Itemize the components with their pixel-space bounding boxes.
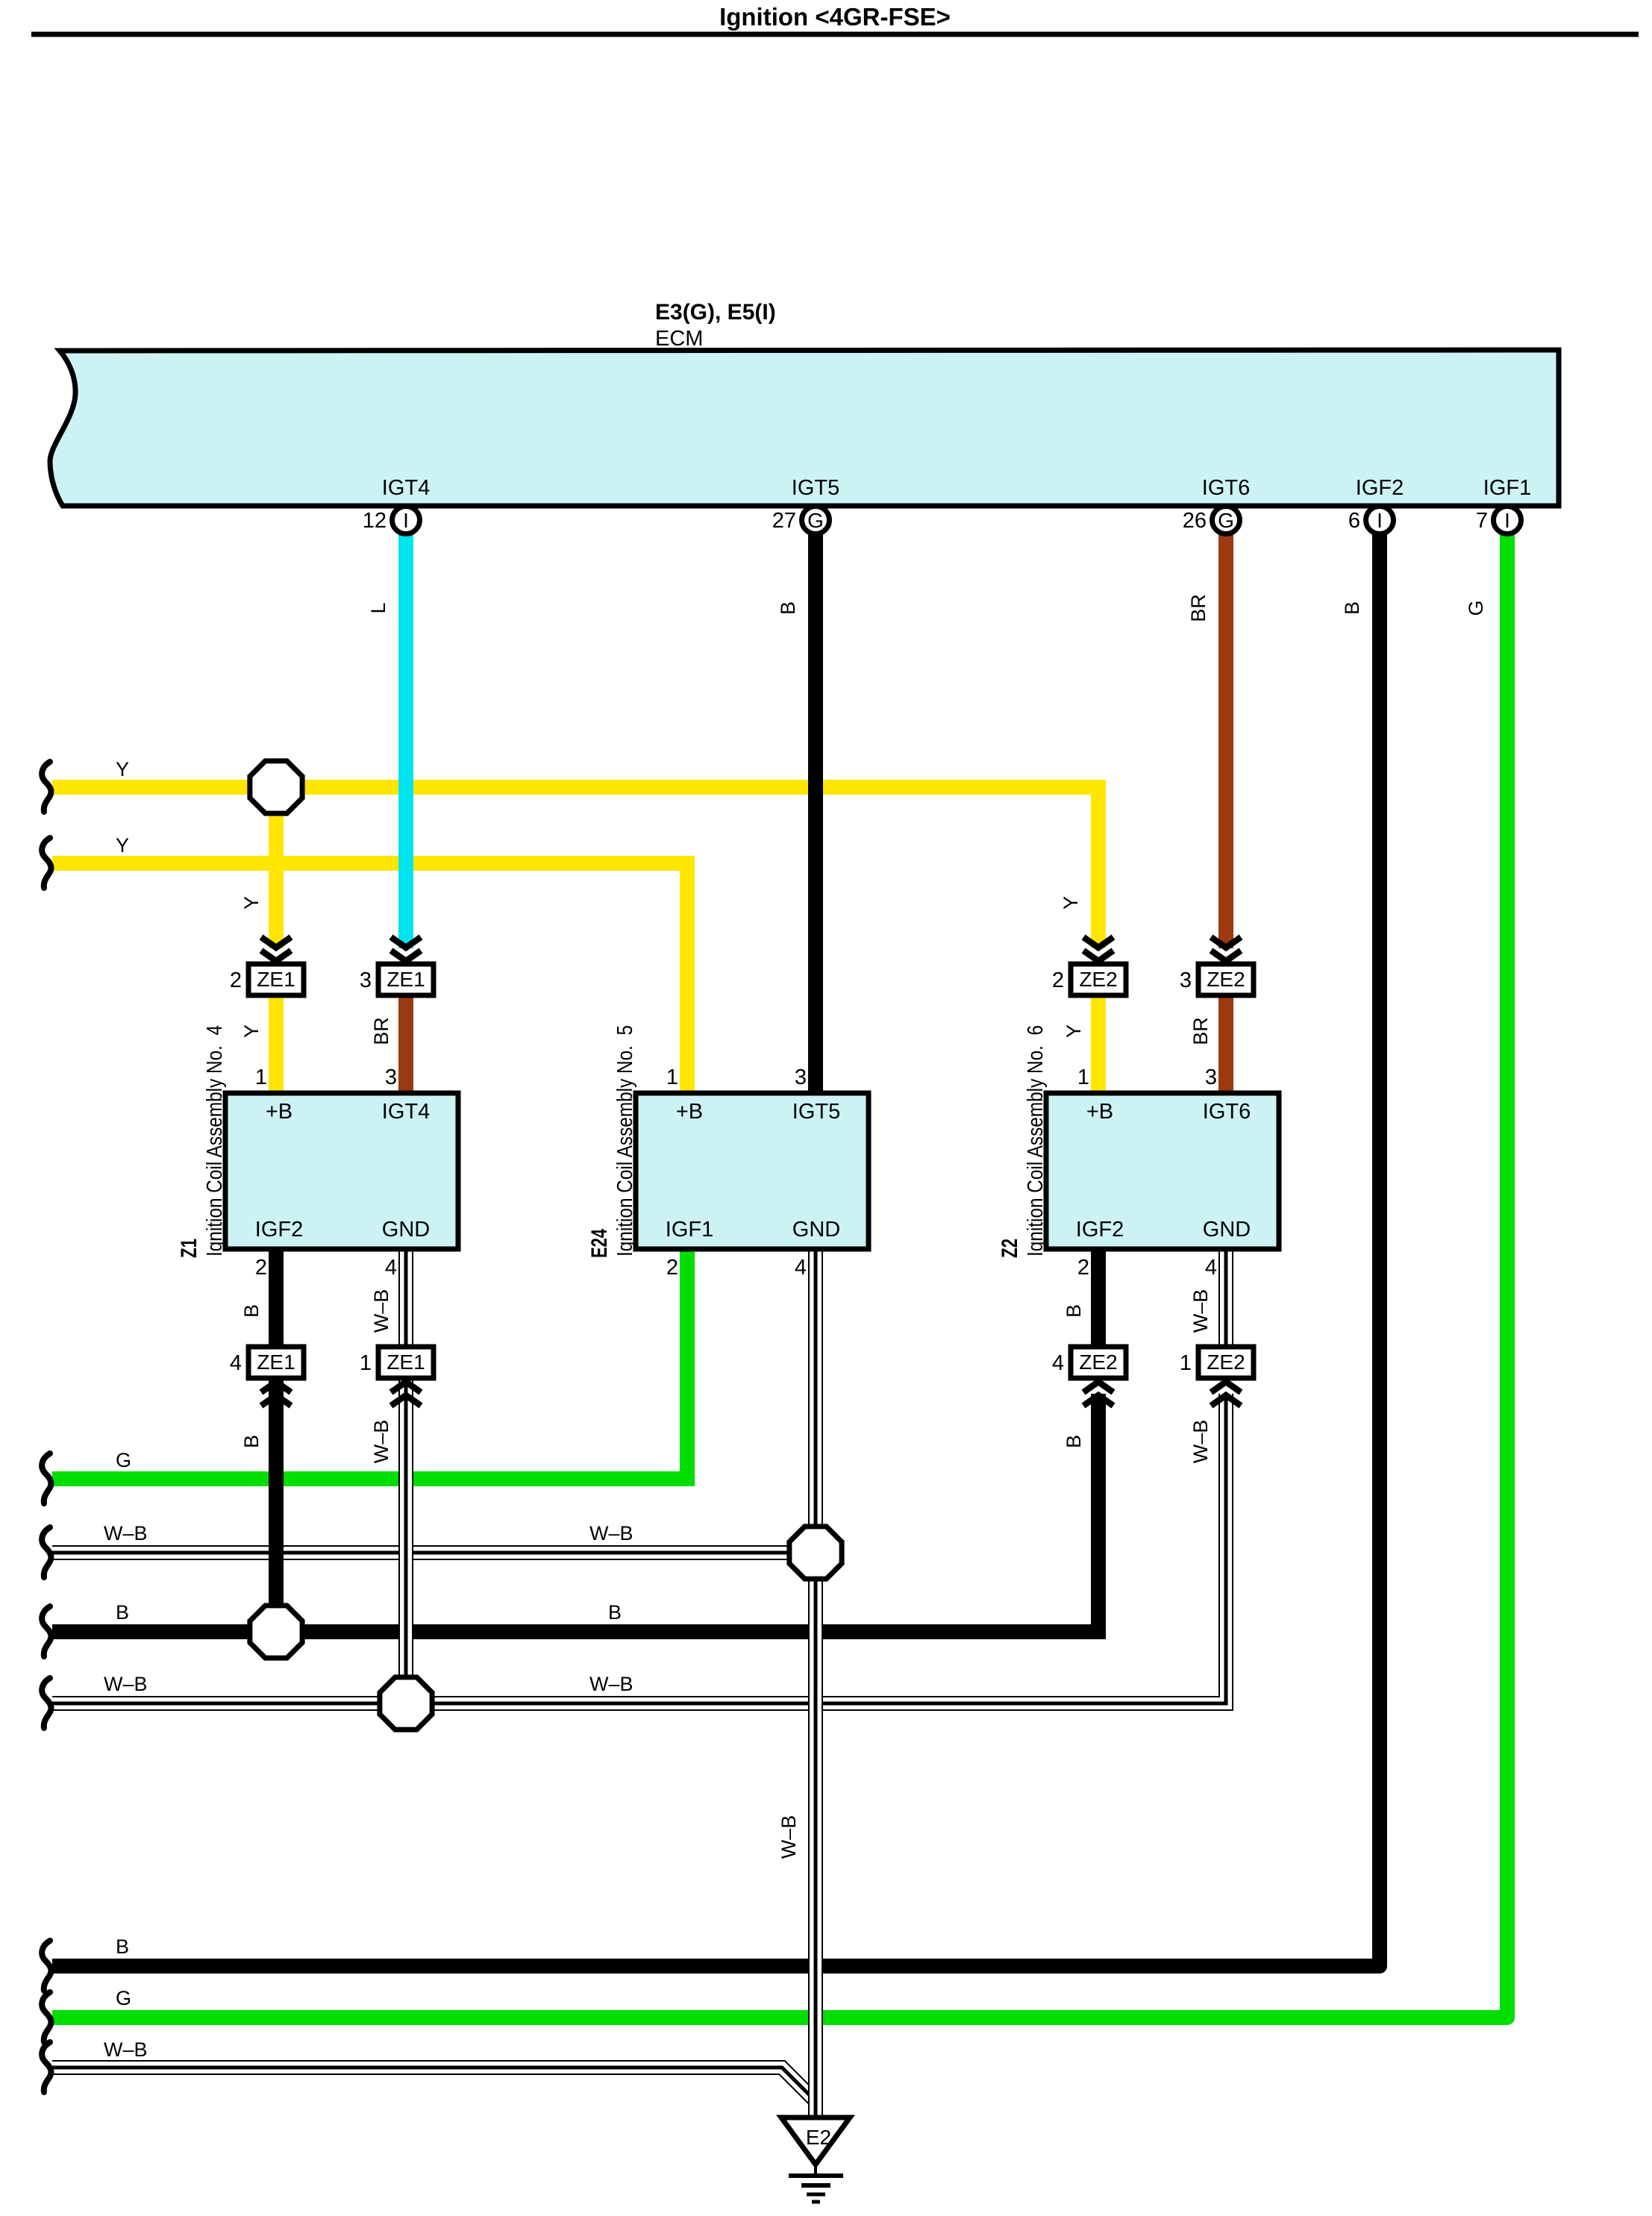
ground E2 bbox=[781, 2118, 850, 2202]
torn-wire mark (W-B bus 2) bbox=[42, 1678, 51, 1728]
svg-text:2: 2 bbox=[666, 1256, 678, 1280]
wire L from ECM IGT4 to ZE1 pin 3 bbox=[398, 534, 413, 948]
junction on B bus bbox=[250, 1606, 302, 1658]
ignition coil E24 bbox=[587, 1025, 869, 1258]
svg-text:Y: Y bbox=[1060, 896, 1082, 910]
connector ZE2 pin 2 bbox=[1052, 937, 1126, 995]
svg-text:B: B bbox=[116, 1601, 129, 1624]
svg-text:ZE2: ZE2 bbox=[1207, 968, 1245, 991]
svg-text:12: 12 bbox=[363, 509, 387, 533]
svg-text:BR: BR bbox=[1187, 594, 1210, 622]
svg-text:ZE1: ZE1 bbox=[387, 968, 425, 991]
svg-text:2: 2 bbox=[1052, 968, 1064, 992]
svg-text:ECM: ECM bbox=[655, 327, 703, 351]
svg-text:B: B bbox=[1063, 1435, 1085, 1448]
torn-wire mark (G bus) bbox=[42, 1453, 51, 1503]
wire BR from ECM IGT6 to ZE2 pin 3 bbox=[1218, 534, 1233, 948]
svg-text:ZE1: ZE1 bbox=[257, 968, 295, 991]
wire B from Z2 IGF2 to ZE2 pin 4 bbox=[1091, 1249, 1106, 1347]
wire B from ZE1 pin 4 to B bus bbox=[269, 1378, 284, 1632]
svg-text:2: 2 bbox=[230, 968, 242, 992]
junction on W-B bus 1 bbox=[789, 1527, 842, 1579]
title rule bbox=[31, 32, 1639, 37]
wire W-B bus 1 bbox=[52, 1545, 816, 1560]
svg-text:Z1: Z1 bbox=[177, 1239, 201, 1258]
svg-text:Ignition Coil Assembly No. 6: Ignition Coil Assembly No. 6 bbox=[1024, 1025, 1048, 1256]
svg-text:ZE2: ZE2 bbox=[1207, 1350, 1245, 1374]
connector ZE1 pin 3 bbox=[360, 937, 434, 995]
svg-text:I: I bbox=[403, 509, 409, 532]
svg-text:I: I bbox=[1377, 509, 1383, 532]
svg-text:Y: Y bbox=[1063, 1024, 1085, 1038]
svg-text:1: 1 bbox=[1077, 1065, 1089, 1089]
torn-wire mark (Y bus 1) bbox=[42, 762, 51, 812]
svg-text:IGF2: IGF2 bbox=[1356, 476, 1404, 500]
connector ZE2 pin 3 bbox=[1180, 937, 1254, 995]
svg-text:E24: E24 bbox=[587, 1229, 612, 1258]
svg-text:IGT5: IGT5 bbox=[792, 476, 839, 500]
svg-text:Y: Y bbox=[116, 758, 129, 780]
wire G bus from ECM IGF1 bbox=[52, 534, 1507, 2018]
svg-text:B: B bbox=[1063, 1304, 1085, 1318]
svg-text:3: 3 bbox=[795, 1065, 807, 1089]
svg-text:+B: +B bbox=[676, 1100, 703, 1124]
svg-text:G: G bbox=[116, 1449, 131, 1471]
svg-text:IGT6: IGT6 bbox=[1202, 476, 1250, 500]
svg-text:+B: +B bbox=[1086, 1100, 1113, 1124]
svg-text:B: B bbox=[240, 1304, 263, 1318]
svg-text:L: L bbox=[367, 602, 389, 613]
svg-text:ZE2: ZE2 bbox=[1079, 1350, 1117, 1374]
ECM terminal 26 IGT6 bbox=[1183, 476, 1251, 534]
svg-text:Ignition Coil Assembly No. 5: Ignition Coil Assembly No. 5 bbox=[613, 1025, 637, 1256]
svg-text:B: B bbox=[608, 1601, 622, 1624]
ignition coil Z1 bbox=[177, 1025, 458, 1258]
svg-text:I: I bbox=[1504, 509, 1510, 532]
svg-text:ZE1: ZE1 bbox=[257, 1350, 295, 1374]
svg-text:Z2: Z2 bbox=[998, 1239, 1022, 1258]
svg-text:1: 1 bbox=[1180, 1351, 1192, 1375]
svg-text:W–B: W–B bbox=[104, 2038, 148, 2061]
svg-text:BR: BR bbox=[370, 1017, 392, 1045]
svg-text:2: 2 bbox=[255, 1256, 267, 1280]
svg-text:BR: BR bbox=[1189, 1017, 1212, 1045]
wire Y bus 2 to E24 +B bbox=[52, 863, 687, 1093]
svg-text:Y: Y bbox=[240, 896, 263, 910]
torn-wire mark (B bus) bbox=[42, 1606, 51, 1656]
connector ZE2 pin 1 bbox=[1180, 1347, 1254, 1406]
svg-text:Ignition Coil Assembly No. 4: Ignition Coil Assembly No. 4 bbox=[203, 1025, 227, 1256]
torn-wire mark (G bus long) bbox=[42, 1992, 51, 2042]
wire B bus to ZE2 pin 4 bbox=[52, 1394, 1098, 1632]
wire BR from ZE2 pin 3 to Z2 IGT6 bbox=[1218, 995, 1233, 1093]
svg-text:GND: GND bbox=[382, 1218, 430, 1242]
svg-text:IGF1: IGF1 bbox=[1483, 476, 1531, 500]
ECM terminal 12 IGT4 bbox=[363, 476, 431, 534]
svg-text:4: 4 bbox=[1052, 1351, 1064, 1375]
ECM box (E3/E5) bbox=[50, 350, 1559, 506]
svg-text:ZE2: ZE2 bbox=[1079, 968, 1117, 991]
svg-text:E2: E2 bbox=[806, 2126, 831, 2149]
svg-text:B: B bbox=[1341, 601, 1363, 615]
connector ZE1 pin 1 bbox=[360, 1347, 434, 1406]
svg-text:3: 3 bbox=[385, 1065, 397, 1089]
svg-text:W–B: W–B bbox=[370, 1289, 392, 1333]
wire W-B from E24 GND to ground E2 bbox=[808, 1249, 823, 2118]
svg-text:W–B: W–B bbox=[589, 1522, 633, 1544]
svg-text:1: 1 bbox=[255, 1065, 267, 1089]
svg-text:IGT5: IGT5 bbox=[792, 1100, 840, 1124]
svg-text:2: 2 bbox=[1077, 1256, 1089, 1280]
wire W-B from ZE1 pin 1 to W-B bus 2 bbox=[398, 1378, 413, 1703]
wire G bus to E24 IGF1 bbox=[52, 1249, 687, 1479]
svg-text:4: 4 bbox=[230, 1351, 242, 1375]
svg-text:Y: Y bbox=[240, 1024, 263, 1038]
wire B from Z1 IGF2 to ZE1 pin 4 bbox=[269, 1249, 284, 1347]
wire Y bus 1 to ZE2 pin 2 bbox=[52, 787, 1098, 948]
torn-wire mark (W-B bus long) bbox=[42, 2042, 51, 2092]
svg-text:G: G bbox=[1465, 600, 1487, 616]
connector ZE1 pin 2 bbox=[230, 937, 304, 995]
svg-text:3: 3 bbox=[360, 968, 372, 992]
svg-text:4: 4 bbox=[385, 1256, 397, 1280]
wire Y from ZE2 pin 2 to Z2 +B bbox=[1091, 995, 1106, 1093]
svg-text:B: B bbox=[240, 1435, 263, 1448]
svg-text:Ignition <4GR-FSE>: Ignition <4GR-FSE> bbox=[719, 3, 951, 31]
svg-text:1: 1 bbox=[360, 1351, 372, 1375]
svg-text:W–B: W–B bbox=[104, 1522, 148, 1544]
svg-text:3: 3 bbox=[1180, 968, 1192, 992]
svg-text:1: 1 bbox=[666, 1065, 678, 1089]
svg-text:W–B: W–B bbox=[1189, 1420, 1212, 1464]
svg-text:IGT4: IGT4 bbox=[382, 1100, 430, 1124]
torn-wire mark (Y bus 2) bbox=[42, 838, 51, 888]
svg-text:Y: Y bbox=[116, 834, 129, 857]
svg-text:IGF2: IGF2 bbox=[255, 1218, 303, 1242]
ignition coil Z2 bbox=[998, 1025, 1279, 1258]
svg-text:GND: GND bbox=[1203, 1218, 1251, 1242]
svg-text:IGF2: IGF2 bbox=[1076, 1218, 1124, 1242]
torn-wire mark (W-B bus 1) bbox=[42, 1527, 51, 1577]
ECM terminal 27 IGT5 bbox=[772, 476, 840, 534]
svg-text:27: 27 bbox=[772, 509, 796, 533]
svg-text:W–B: W–B bbox=[589, 1673, 633, 1695]
ECM terminal 6 IGF2 bbox=[1348, 476, 1404, 534]
torn-wire mark (B bus long) bbox=[42, 1941, 51, 1991]
wire B from ECM IGT5 to E24 IGT5 bbox=[808, 534, 823, 1093]
svg-text:6: 6 bbox=[1348, 509, 1360, 533]
wire B bus from ECM IGF2 bbox=[52, 534, 1380, 1966]
svg-text:7: 7 bbox=[1476, 509, 1488, 533]
svg-text:B: B bbox=[116, 1935, 129, 1958]
ECM terminal 7 IGF1 bbox=[1476, 476, 1531, 534]
wire W-B bus 2 to ZE2 pin 1 bbox=[52, 1394, 1226, 1703]
svg-text:G: G bbox=[116, 1987, 131, 2009]
svg-text:3: 3 bbox=[1205, 1065, 1217, 1089]
svg-text:G: G bbox=[807, 509, 824, 532]
svg-text:E3(G), E5(I): E3(G), E5(I) bbox=[655, 300, 776, 325]
svg-text:W–B: W–B bbox=[104, 1673, 148, 1695]
svg-text:W–B: W–B bbox=[777, 1815, 800, 1859]
svg-text:IGT6: IGT6 bbox=[1203, 1100, 1251, 1124]
svg-text:IGF1: IGF1 bbox=[666, 1218, 713, 1242]
wire Y from ZE1 pin 2 to Z1 +B bbox=[269, 995, 284, 1093]
wire BR from ZE1 pin 3 to Z1 IGT4 bbox=[398, 995, 413, 1093]
svg-text:W–B: W–B bbox=[1189, 1289, 1212, 1333]
svg-text:G: G bbox=[1218, 509, 1234, 532]
svg-text:ZE1: ZE1 bbox=[387, 1350, 425, 1374]
wire W-B from Z1 GND to ZE1 pin 1 bbox=[398, 1249, 413, 1347]
junction on W-B bus 2 bbox=[380, 1677, 432, 1730]
svg-text:+B: +B bbox=[266, 1100, 292, 1124]
svg-text:IGT4: IGT4 bbox=[382, 476, 430, 500]
svg-text:W–B: W–B bbox=[370, 1420, 392, 1464]
svg-text:4: 4 bbox=[1205, 1256, 1217, 1280]
junction on Y bus 1 bbox=[250, 761, 302, 813]
connector ZE1 pin 4 bbox=[230, 1347, 304, 1406]
svg-text:4: 4 bbox=[795, 1256, 807, 1280]
svg-text:26: 26 bbox=[1183, 509, 1207, 533]
wire Y drop from junction to ZE1 pin 2 bbox=[269, 787, 284, 948]
connector ZE2 pin 4 bbox=[1052, 1347, 1126, 1406]
wire W-B from Z2 GND to ZE2 pin 1 bbox=[1218, 1249, 1233, 1347]
wire W-B bus to E2 ground bbox=[52, 2068, 813, 2099]
svg-text:GND: GND bbox=[792, 1218, 840, 1242]
svg-text:B: B bbox=[777, 601, 799, 615]
